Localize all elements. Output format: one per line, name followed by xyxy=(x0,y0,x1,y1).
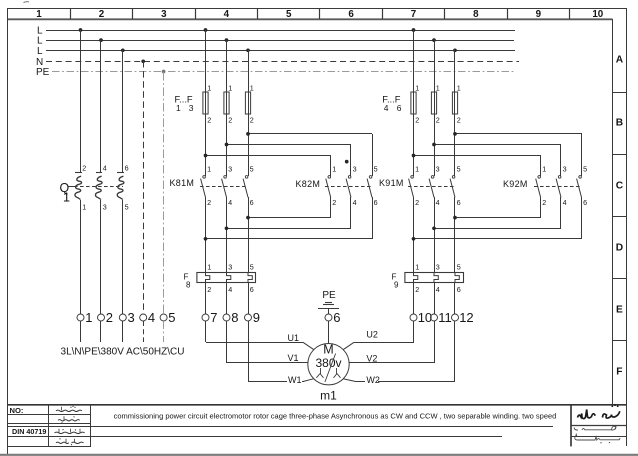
junction dot bus 3 xyxy=(412,28,416,32)
title DIN field xyxy=(12,427,46,436)
svg-text:F: F xyxy=(616,367,622,378)
wire K82M pin4 return xyxy=(225,226,351,230)
svg-text:6: 6 xyxy=(250,285,254,294)
svg-text:1: 1 xyxy=(63,191,70,205)
contactor K82M pole 2 xyxy=(346,144,357,228)
svg-text:2: 2 xyxy=(207,285,211,294)
svg-text:2: 2 xyxy=(228,115,232,124)
junction dot bus 8 xyxy=(246,48,250,52)
svg-text:L: L xyxy=(37,46,43,57)
svg-text:3: 3 xyxy=(103,202,107,211)
svg-text:1: 1 xyxy=(457,84,461,93)
bottom bar xyxy=(0,454,638,456)
svg-text:1: 1 xyxy=(250,84,254,93)
terminal 10 xyxy=(410,310,432,325)
svg-text:5: 5 xyxy=(583,165,587,174)
svg-text:6: 6 xyxy=(397,103,402,113)
wire F9 pole 3 to terminal xyxy=(454,282,456,314)
junction dot bus 9 xyxy=(453,48,457,52)
contactor K91M linkage xyxy=(408,186,455,188)
svg-text:9: 9 xyxy=(536,9,542,20)
fuse group label F1...F3 xyxy=(175,95,194,114)
svg-text:2: 2 xyxy=(207,115,211,124)
svg-text:1: 1 xyxy=(542,165,546,174)
junction dot bus 6 xyxy=(432,38,436,42)
svg-text:V1: V1 xyxy=(288,353,299,363)
title designer name xyxy=(575,434,620,444)
svg-text:3: 3 xyxy=(161,9,167,20)
svg-text:2: 2 xyxy=(415,198,419,207)
svg-text:12: 12 xyxy=(459,310,473,325)
svg-text:4: 4 xyxy=(228,285,232,294)
svg-text:1: 1 xyxy=(85,310,92,325)
wire L3 tap to K82M pin5 xyxy=(246,132,372,136)
svg-text:D: D xyxy=(616,243,623,254)
wire Q1 pole 3 to terminal 5 xyxy=(122,200,124,314)
wire stub below terminal xyxy=(80,321,82,342)
svg-text:2: 2 xyxy=(457,115,461,124)
contactor K91M pole 1 xyxy=(409,165,420,272)
terminal 5 xyxy=(160,310,175,325)
wire L3 to Q1 pole 3 xyxy=(122,50,124,172)
terminal 6 xyxy=(325,310,340,325)
svg-text:6: 6 xyxy=(457,198,461,207)
svg-text:1: 1 xyxy=(36,9,42,20)
svg-text:2: 2 xyxy=(415,115,419,124)
contactor K81M pole 2 xyxy=(222,165,233,272)
wire K82M pin6 return xyxy=(204,237,372,241)
svg-text:A: A xyxy=(616,54,624,65)
svg-text:6: 6 xyxy=(333,310,340,325)
label V1 xyxy=(288,353,299,363)
wire N vertical xyxy=(143,61,145,314)
svg-text:1: 1 xyxy=(436,84,440,93)
svg-text:1: 1 xyxy=(228,84,232,93)
wire stub below terminal xyxy=(122,321,124,342)
svg-text:5: 5 xyxy=(457,263,461,272)
title tarrah xyxy=(574,425,616,430)
wire F9 pole 2 to terminal xyxy=(434,282,436,314)
svg-text:5: 5 xyxy=(250,165,254,174)
bus N xyxy=(36,57,519,68)
svg-text:4: 4 xyxy=(148,310,155,325)
svg-text:6: 6 xyxy=(125,163,129,172)
contactor K82M pole 3 xyxy=(367,134,378,239)
overload relay F9 xyxy=(392,263,464,295)
svg-text:4: 4 xyxy=(103,163,107,172)
svg-text:2: 2 xyxy=(207,198,211,207)
svg-text:U1: U1 xyxy=(288,333,300,343)
svg-text:4: 4 xyxy=(563,198,567,207)
svg-text:K82M: K82M xyxy=(296,179,321,189)
wire terminal 6 to motor xyxy=(328,321,330,344)
title field standard xyxy=(55,429,85,434)
svg-text:6: 6 xyxy=(583,198,587,207)
svg-text:DIN 40719: DIN 40719 xyxy=(12,427,46,436)
svg-text:M: M xyxy=(323,342,333,356)
svg-text:K91M: K91M xyxy=(379,178,404,188)
overload relay F8 xyxy=(184,263,256,295)
PE ground symbol xyxy=(318,290,339,314)
fuse F6 xyxy=(452,50,460,176)
wire V1 xyxy=(226,321,308,363)
terminal 8 xyxy=(223,310,238,325)
motor m1 xyxy=(308,342,349,402)
label W1 xyxy=(288,375,302,385)
svg-text:4: 4 xyxy=(353,198,357,207)
junction dot PE tap xyxy=(162,70,166,74)
svg-text:2: 2 xyxy=(82,163,86,172)
svg-text:10: 10 xyxy=(592,9,603,20)
contactor K92M linkage xyxy=(534,186,582,188)
svg-text:2: 2 xyxy=(415,285,419,294)
wire PE vertical xyxy=(163,72,165,314)
svg-text:6: 6 xyxy=(348,9,354,20)
junction dot N tap xyxy=(141,59,145,63)
svg-text:3: 3 xyxy=(128,310,135,325)
fuse F4 xyxy=(411,30,419,176)
svg-text:PE: PE xyxy=(322,290,336,301)
wire L1 to Q1 pole 1 xyxy=(80,30,82,172)
bus PE xyxy=(36,67,516,78)
wire F8 pole 1 to terminal xyxy=(205,282,207,314)
label V2 xyxy=(366,353,377,363)
svg-text:2: 2 xyxy=(436,115,440,124)
svg-text:PE: PE xyxy=(36,67,50,78)
contactor K81M linkage xyxy=(200,186,248,188)
svg-text:K92M: K92M xyxy=(503,179,528,189)
disconnector Q1 pole 1 xyxy=(75,163,86,211)
terminal 9 xyxy=(245,310,260,325)
title field shomareh xyxy=(56,406,82,412)
fuse group label F4...F6 xyxy=(382,95,402,114)
svg-text:3L\N\PE\380V AC\50HZ\CU: 3L\N\PE\380V AC\50HZ\CU xyxy=(61,347,185,358)
label W2 xyxy=(366,375,380,385)
svg-text:7: 7 xyxy=(210,310,217,325)
wire K92M pin2 return xyxy=(453,216,541,220)
title NO field xyxy=(10,406,24,415)
svg-text:5: 5 xyxy=(457,165,461,174)
svg-text:9: 9 xyxy=(253,310,260,325)
svg-text:C: C xyxy=(616,181,624,192)
svg-text:4: 4 xyxy=(224,9,230,20)
svg-text:380v: 380v xyxy=(315,356,341,370)
contactor K82M label xyxy=(296,179,321,189)
svg-text:2: 2 xyxy=(99,9,105,20)
wire U1 xyxy=(206,321,314,350)
disconnector Q1 label xyxy=(60,181,75,205)
svg-text:1: 1 xyxy=(82,202,86,211)
contactor K91M pole 3 xyxy=(450,165,461,272)
svg-text:3: 3 xyxy=(436,263,440,272)
svg-text:1: 1 xyxy=(415,84,419,93)
junction dot bus 5 xyxy=(225,38,229,42)
svg-text:6: 6 xyxy=(374,198,378,207)
wire Q1 pole 2 to terminal 3 xyxy=(100,200,102,314)
svg-text:3: 3 xyxy=(228,263,232,272)
bus L3 xyxy=(37,46,515,57)
contactor K81M pole 3 xyxy=(243,165,254,272)
wire F8 pole 2 to terminal xyxy=(226,282,228,314)
wire Q1 pole 1 to terminal 1 xyxy=(80,200,82,314)
title field tarikh xyxy=(58,416,80,423)
svg-text:5: 5 xyxy=(250,263,254,272)
svg-text:NO:: NO: xyxy=(10,406,24,415)
svg-text:3: 3 xyxy=(189,103,194,113)
svg-text:8: 8 xyxy=(473,9,479,20)
svg-text:7: 7 xyxy=(411,9,417,20)
wire K92M pin6 return xyxy=(412,237,582,241)
contactor K91M pole 2 xyxy=(429,165,440,272)
title sharh madar xyxy=(578,404,620,418)
svg-text:3: 3 xyxy=(353,165,357,174)
svg-text:E: E xyxy=(616,305,623,316)
contactor K82M pole 1 xyxy=(326,156,337,218)
junction dot bus 4 xyxy=(99,38,103,42)
label U2 xyxy=(366,330,378,340)
svg-text:8: 8 xyxy=(186,281,191,290)
terminal 3 xyxy=(119,310,134,325)
title block xyxy=(8,405,626,447)
fuse F3 xyxy=(245,50,253,176)
svg-text:9: 9 xyxy=(394,281,399,290)
wire W2 xyxy=(343,321,455,382)
wire L2 tap to K92M pin3 xyxy=(432,143,561,147)
wire L2 to Q1 pole 2 xyxy=(100,40,102,172)
svg-text:2: 2 xyxy=(106,310,113,325)
wire L2 tap to K82M pin3 xyxy=(225,143,351,147)
svg-text:1: 1 xyxy=(415,263,419,272)
wire stub below terminal 5 xyxy=(163,321,165,342)
wire stub below terminal 4 xyxy=(143,321,145,342)
svg-text:U2: U2 xyxy=(366,330,378,340)
svg-text:3: 3 xyxy=(436,165,440,174)
contactor K91M label xyxy=(379,178,404,188)
svg-text:4: 4 xyxy=(384,103,389,113)
wire L3 tap to K92M pin5 xyxy=(453,132,582,136)
terminal 2 xyxy=(98,310,113,325)
svg-text:1: 1 xyxy=(176,103,181,113)
label U1 xyxy=(288,333,300,343)
svg-text:1: 1 xyxy=(207,165,211,174)
fuse F2 xyxy=(224,40,232,176)
bus L1 xyxy=(37,26,515,37)
svg-text:m1: m1 xyxy=(320,389,337,403)
supply label xyxy=(61,347,185,358)
contactor K81M pole 1 xyxy=(201,165,212,272)
junction dot bus 2 xyxy=(204,28,208,32)
svg-text:5: 5 xyxy=(125,202,129,211)
title description xyxy=(114,412,557,421)
wire F9 pole 1 to terminal xyxy=(413,282,415,314)
svg-text:commissioning power circuit el: commissioning power circuit electromotor… xyxy=(114,412,557,421)
stray node dot xyxy=(345,160,349,164)
svg-text:3: 3 xyxy=(563,165,567,174)
disconnector Q1 linkage xyxy=(74,186,123,188)
terminal 11 xyxy=(431,310,452,325)
svg-text:5: 5 xyxy=(286,9,292,20)
svg-text:V2: V2 xyxy=(366,353,377,363)
wire K92M pin4 return xyxy=(432,226,561,230)
disconnector Q1 pole 2 xyxy=(95,163,106,211)
svg-text:5: 5 xyxy=(168,310,175,325)
wire W1 xyxy=(248,321,314,382)
svg-text:4: 4 xyxy=(436,198,440,207)
terminal 1 xyxy=(77,310,92,325)
svg-text:2: 2 xyxy=(542,198,546,207)
bus L2 xyxy=(37,36,514,47)
svg-text:8: 8 xyxy=(231,310,238,325)
fuse F5 xyxy=(431,40,439,176)
contactor K92M label xyxy=(503,179,528,189)
svg-text:10: 10 xyxy=(418,310,432,325)
title field zaman ejra xyxy=(56,438,84,445)
contactor K81M label xyxy=(170,178,195,188)
terminal 4 xyxy=(140,310,155,325)
svg-text:6: 6 xyxy=(457,285,461,294)
svg-text:4: 4 xyxy=(436,285,440,294)
svg-text:1: 1 xyxy=(415,165,419,174)
contactor K92M pole 1 xyxy=(536,156,547,218)
junction dot bus 1 xyxy=(79,28,83,32)
svg-text:W1: W1 xyxy=(288,375,302,385)
wire stub below terminal xyxy=(100,321,102,342)
svg-text:2: 2 xyxy=(250,115,254,124)
svg-text:W2: W2 xyxy=(366,375,380,385)
svg-text:4: 4 xyxy=(228,198,232,207)
svg-text:2: 2 xyxy=(332,198,336,207)
contactor K92M pole 3 xyxy=(577,134,588,239)
wire L1 tap to K82M pin1 xyxy=(204,154,331,158)
svg-text:6: 6 xyxy=(250,198,254,207)
disconnector Q1 pole 3 xyxy=(117,163,129,211)
wire L1 tap to K92M pin1 xyxy=(412,154,541,158)
contactor K92M pole 2 xyxy=(556,144,567,228)
junction dot bus 7 xyxy=(121,48,125,52)
wire U2 xyxy=(343,321,414,350)
terminal 7 xyxy=(202,310,217,325)
svg-text:5: 5 xyxy=(374,165,378,174)
wire F8 pole 3 to terminal xyxy=(248,282,250,314)
wire V2 xyxy=(349,321,435,363)
fuse F1 xyxy=(203,30,211,176)
terminal 12 xyxy=(452,310,474,325)
wire K82M pin2 return xyxy=(246,216,331,220)
svg-text:3: 3 xyxy=(228,165,232,174)
svg-text:K81M: K81M xyxy=(170,178,195,188)
svg-text:B: B xyxy=(616,118,623,129)
svg-text:1: 1 xyxy=(207,263,211,272)
svg-text:1: 1 xyxy=(207,84,211,93)
svg-text:1: 1 xyxy=(332,165,336,174)
svg-text:11: 11 xyxy=(438,310,452,325)
contactor K82M linkage xyxy=(325,186,372,188)
